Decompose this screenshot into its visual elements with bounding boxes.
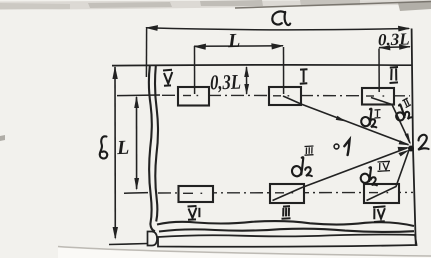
lamp V bbox=[178, 87, 209, 106]
svg-text:L: L bbox=[116, 137, 130, 159]
tick bottom row axis bbox=[124, 192, 148, 195]
arrowhead L-vert bottom bbox=[134, 178, 139, 191]
d2-IV line from lamp IV to point 2 bbox=[367, 151, 409, 201]
lamp I bbox=[269, 87, 301, 105]
arrowhead d2-II at point 2 bbox=[405, 133, 411, 145]
lighter paper strip below bottom scan line bbox=[58, 248, 431, 258]
0.3L vertical double arrow bbox=[246, 67, 248, 94]
extension line L left bbox=[194, 47, 196, 94]
d2-II line from lamp II to point 2 bbox=[371, 98, 410, 144]
point 1 circle bbox=[334, 144, 339, 149]
dimension line L horizontal bbox=[194, 45, 283, 48]
label III below lamp III bbox=[282, 206, 291, 219]
arrowhead d2-I at point 2 bbox=[399, 140, 410, 145]
arrowhead b bottom bbox=[113, 227, 118, 240]
point 2 blob bbox=[408, 146, 414, 152]
left edge small mark bbox=[0, 135, 5, 141]
lamp III bbox=[270, 184, 304, 203]
bottom scan edge line bbox=[58, 247, 431, 257]
label V above lamp V bbox=[163, 70, 172, 86]
bottom wall wavy line upper bbox=[157, 221, 414, 226]
arrowhead a left bbox=[145, 25, 158, 31]
tick top row axis bbox=[117, 94, 160, 97]
top scan band bbox=[0, 0, 431, 11]
right wall bbox=[412, 29, 416, 247]
dimension line 0.3L top right bbox=[379, 46, 410, 49]
top row centre line (dash-dot) bbox=[162, 94, 410, 97]
lamp II bbox=[362, 88, 394, 105]
arrowhead d2-IV at point 2 bbox=[398, 150, 409, 157]
dimension line a bbox=[146, 28, 409, 30]
label d2-II (rotated) bbox=[390, 98, 416, 124]
label 2 bbox=[418, 135, 428, 150]
label I above lamp I bbox=[300, 69, 308, 84]
extension line 0.3L left bbox=[378, 49, 380, 93]
arrowhead L-vert top bbox=[134, 96, 139, 109]
arrowhead d2-III at point 2 bbox=[398, 147, 410, 151]
label b bbox=[100, 136, 107, 158]
bottom row centre line (dash-dot) bbox=[158, 191, 413, 194]
d2-I line from lamp I to point 2 bbox=[283, 96, 409, 145]
label 1 bbox=[344, 140, 349, 155]
label a bbox=[272, 11, 290, 25]
left wall inner wavy line bbox=[155, 66, 158, 222]
label II above lamp II bbox=[390, 67, 399, 83]
extension line a left / room left top edge bbox=[145, 29, 147, 78]
d2-III line from lamp III to point 2 bbox=[273, 148, 408, 201]
arrowhead a right bbox=[398, 26, 411, 32]
svg-text:L: L bbox=[227, 30, 241, 52]
room top edge bbox=[112, 64, 412, 67]
dimension line b bbox=[114, 67, 116, 238]
svg-text:0,3L: 0,3L bbox=[210, 70, 242, 95]
label d2-IV bbox=[360, 161, 390, 185]
label d2-III bbox=[291, 146, 313, 177]
label VI below lamp VI bbox=[188, 206, 200, 220]
b bottom base line bbox=[109, 244, 148, 245]
dimension line L vertical bbox=[136, 97, 138, 189]
label IV below lamp IV bbox=[373, 206, 386, 222]
bottom wall wavy line lower bbox=[159, 229, 414, 232]
lamp VI bbox=[179, 186, 214, 202]
bottom bar bbox=[158, 234, 417, 246]
extension line L right bbox=[283, 47, 285, 94]
left wall outer wavy line bbox=[149, 66, 155, 231]
arrowhead b top bbox=[112, 66, 117, 79]
arrowhead L-horiz left bbox=[193, 44, 206, 50]
label d2-I bbox=[360, 109, 380, 128]
arrowhead L-horiz right bbox=[271, 43, 284, 49]
bottom D piece bbox=[148, 232, 158, 246]
dash-dot segments through lamps bbox=[183, 96, 388, 194]
mid arrowhead on d2-I bbox=[336, 116, 346, 122]
lamp IV bbox=[364, 184, 399, 203]
